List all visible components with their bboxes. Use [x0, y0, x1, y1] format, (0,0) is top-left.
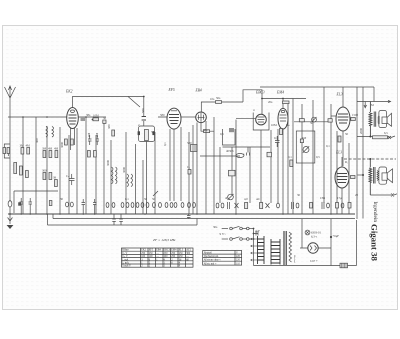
component osc dark — [229, 128, 234, 132]
svg-text:M: M — [371, 103, 374, 107]
svg-text:38a: 38a — [86, 113, 91, 117]
trimmer on link — [312, 117, 317, 122]
capacitor C oval mid — [236, 154, 244, 158]
tube EL3 lower — [335, 167, 349, 188]
capacitor C grid — [69, 174, 75, 185]
tube EF5 — [167, 108, 181, 129]
value labels scatter — [20, 96, 389, 263]
svg-text:Wechselstrom: Wechselstrom — [204, 255, 219, 258]
wire EF5 to EB4 y117 — [181, 116, 196, 118]
contact oval row left a — [66, 202, 69, 207]
transformer secondary winding — [289, 232, 292, 262]
svg-text:Allstrom ohne ≈: Allstrom ohne ≈ — [204, 259, 222, 262]
mid verticals group — [104, 117, 214, 214]
right-mid verticals group — [220, 87, 349, 248]
svg-text:50a: 50a — [216, 96, 221, 100]
svg-text:EM4: EM4 — [276, 91, 284, 95]
contact oval row left b — [70, 202, 73, 207]
svg-text:30: 30 — [297, 193, 301, 197]
tube EK2 — [67, 108, 79, 129]
capacitor C8 block — [229, 170, 236, 176]
left verticals group — [23, 117, 96, 214]
capacitor RC right blob — [152, 131, 154, 135]
svg-text:50: 50 — [310, 121, 314, 125]
resistor R left col b — [20, 166, 23, 175]
resistor R11 — [112, 130, 115, 136]
wire EB4 top — [201, 90, 262, 114]
wire main grid line y117 — [8, 116, 67, 118]
svg-text:EL3: EL3 — [335, 151, 342, 155]
resistor below EB4 — [204, 130, 210, 133]
coil L3 IF — [112, 167, 114, 184]
resistor R15 EM4 — [280, 129, 283, 135]
transformer T2 core — [374, 167, 375, 184]
wire speaker1 bottom — [357, 136, 391, 139]
resistor R8 lower b — [49, 173, 52, 180]
resistor pair mid b — [94, 151, 97, 158]
switch S1 row2 — [222, 237, 254, 241]
capacitor C51 pair between buses — [187, 214, 191, 219]
svg-text:50: 50 — [152, 197, 156, 201]
capacitor series marks top — [142, 117, 146, 121]
text labels layer — [20, 88, 389, 268]
resistor RC center — [144, 130, 148, 141]
wire EB4 bottom lead — [201, 123, 214, 132]
contact row mid ovals — [106, 203, 195, 208]
resistor R6 trio c — [55, 151, 58, 158]
output transformer T1 winding — [369, 102, 372, 137]
resistor at link end — [328, 119, 332, 122]
wire left tie y191 — [14, 191, 58, 213]
wire bus2 y218.5 — [53, 218, 355, 220]
loudspeaker LS1 cone rect — [382, 117, 387, 124]
resistor R13 — [300, 139, 303, 143]
terminal X right lower — [391, 194, 397, 197]
node speaker junction — [369, 136, 371, 138]
svg-text:380: 380 — [107, 124, 111, 129]
svg-text:50: 50 — [151, 130, 155, 134]
tube EM4 — [278, 108, 288, 129]
resistor 20a on link — [299, 119, 304, 122]
component EK2 row b — [93, 118, 99, 121]
pilot lamp — [305, 230, 310, 235]
wire right verticals — [357, 87, 363, 219]
svg-text:b 67 +: b 67 + — [310, 259, 318, 263]
box around EBC3 — [253, 113, 269, 131]
node antenna terminal — [8, 201, 12, 207]
wire top bus y87 — [260, 86, 374, 88]
wire far-left ties — [4, 144, 10, 158]
svg-text:40306: 40306 — [226, 149, 234, 153]
resistor R2 left pair a — [21, 148, 24, 155]
svg-text:4μF: 4μF — [255, 229, 260, 233]
svg-text:EF5: EF5 — [168, 88, 175, 92]
svg-text:Allstr. mit ≈: Allstr. mit ≈ — [204, 262, 217, 265]
trimmer C arrow mid — [228, 194, 234, 200]
resistor R9 lower c — [55, 180, 58, 187]
capacitor C50 pair between buses — [112, 214, 123, 225]
svg-text:40: 40 — [225, 196, 229, 200]
svg-text:+6μF: +6μF — [333, 234, 340, 238]
resistor R3 left pair b — [27, 148, 30, 155]
svg-text:AC: AC — [256, 197, 260, 201]
svg-text:30a: 30a — [213, 225, 218, 229]
wire ground bus y214 — [8, 213, 355, 215]
node stub junction — [362, 174, 364, 176]
contact row right components — [216, 202, 351, 209]
wire EK2 top cap — [73, 97, 144, 127]
tube EBC3 — [256, 114, 267, 125]
input rect far left b — [7, 148, 10, 154]
coil L2 — [52, 127, 54, 138]
node B+ junction — [330, 236, 332, 238]
svg-text:9 V~: 9 V~ — [220, 232, 227, 236]
capacitor C11 mid — [188, 170, 191, 175]
trimmer in box — [303, 146, 309, 153]
switch S1 row1 — [222, 226, 254, 230]
power box bottom — [254, 220, 357, 266]
tube EL3 upper — [336, 107, 350, 131]
loudspeaker LS2 voice coil — [377, 171, 379, 181]
wire antenna down-lead — [9, 108, 11, 202]
input rect far left a — [3, 148, 6, 154]
resistor R left col c — [26, 171, 29, 178]
capacitor C7 — [82, 199, 86, 214]
wire bus returns — [48, 214, 198, 225]
svg-text:580: 580 — [160, 113, 165, 117]
svg-text:17μ: 17μ — [337, 196, 342, 200]
wire bus3 y225 — [48, 224, 198, 226]
resistor R14 — [290, 160, 293, 167]
resistor R left col a — [14, 163, 17, 174]
wire EK2 right row y117 — [79, 116, 168, 118]
table V2 (mains data) — [203, 251, 242, 266]
resistor R17 below EL3 — [338, 136, 341, 142]
wire osc bottom — [223, 146, 271, 148]
resistor above EM4 — [283, 101, 290, 104]
svg-text:2000: 2000 — [359, 128, 363, 135]
transformer T1 core — [374, 112, 376, 127]
resistor R4 trio a — [43, 151, 46, 158]
svg-text:10a: 10a — [210, 97, 215, 101]
resistor R18 — [351, 176, 356, 179]
capacitor RC left blob — [138, 131, 140, 135]
svg-text:20a: 20a — [268, 100, 273, 104]
svg-text:EL3: EL3 — [336, 93, 343, 97]
svg-text:10M: 10M — [271, 123, 277, 127]
resistor pair EK2 bottom b — [71, 139, 74, 145]
node bus dots — [9, 213, 332, 215]
coil L6 IF — [131, 174, 133, 187]
svg-text:50: 50 — [103, 116, 107, 120]
table V2 text — [204, 252, 241, 266]
capacitor C6 on bus — [29, 198, 33, 214]
component EK2 row c — [103, 120, 106, 123]
svg-text:38: 38 — [53, 176, 57, 180]
wire anode line y101.5 — [357, 87, 391, 103]
resistor R16 EL3 — [351, 118, 356, 121]
svg-text:20: 20 — [355, 193, 359, 197]
resistor 25 on 147 line — [267, 152, 272, 157]
loudspeaker LS1 voice coil — [378, 116, 380, 124]
output transformer T2 winding — [369, 159, 372, 195]
node y117 dots — [22, 116, 87, 118]
svg-text:50: 50 — [144, 197, 148, 201]
svg-text:4M: 4M — [26, 144, 31, 148]
svg-text:30: 30 — [60, 197, 64, 201]
svg-text:3000: 3000 — [122, 167, 126, 174]
wire EL3 top drop — [342, 87, 344, 107]
svg-text:Gigant 38: Gigant 38 — [370, 224, 380, 262]
chassis dashed line — [344, 158, 396, 160]
resistor pair mid a — [88, 151, 91, 158]
loudspeaker LS1 frame — [379, 111, 387, 128]
svg-text:580: 580 — [141, 108, 145, 113]
capacitor C10 pair — [96, 135, 100, 145]
svg-text:Irgendein: Irgendein — [372, 202, 378, 223]
trimmer arrow top right — [364, 102, 367, 108]
svg-text:2M: 2M — [95, 133, 99, 138]
loudspeaker LS2 horn — [387, 169, 392, 183]
capacitor C9 pair — [88, 135, 92, 145]
transformer primary ladder2 — [271, 239, 280, 265]
svg-text:500: 500 — [187, 141, 192, 145]
resistor R5 trio b — [49, 151, 52, 158]
svg-text:4M: 4M — [87, 133, 91, 138]
transformer primary ladder1 — [251, 236, 265, 264]
loudspeaker LS2 frame — [379, 167, 387, 184]
svg-text:4M: 4M — [54, 147, 59, 151]
wire terminal to bus — [9, 207, 11, 214]
svg-text:1500: 1500 — [352, 113, 359, 117]
wire osc mid — [200, 155, 240, 157]
wire EK2 leads — [71, 128, 75, 150]
box oscillator section — [223, 129, 236, 145]
svg-text:EK2: EK2 — [65, 90, 73, 94]
capacitor C power input — [254, 232, 259, 236]
svg-text:10M: 10M — [93, 114, 99, 118]
svg-text:EBC3: EBC3 — [255, 91, 265, 95]
capacitor dark blob left — [18, 202, 21, 205]
component pair on 147 line — [247, 147, 250, 156]
svg-text:C84: C84 — [320, 196, 326, 200]
capacitor C8 — [93, 199, 97, 214]
node switch junction dots — [92, 96, 284, 240]
RC block loop — [139, 126, 155, 142]
svg-text:R₂: R₂ — [345, 160, 348, 164]
capacitor C5 on bus — [20, 198, 24, 214]
svg-text:3M: 3M — [42, 147, 47, 151]
resistor R10 small — [49, 201, 52, 206]
svg-text:EB4: EB4 — [195, 89, 202, 93]
rectifier tube AZ1 — [308, 243, 318, 253]
wire rectifier links — [300, 247, 331, 249]
resistor pair EK2 bottom a — [65, 139, 68, 145]
loudspeaker LS2 cone rect — [382, 173, 387, 180]
svg-text:S mA/V: S mA/V — [122, 265, 131, 268]
loudspeaker LS1 horn — [387, 113, 392, 126]
transformer core — [284, 231, 286, 265]
coil L4 IF — [116, 167, 118, 184]
ground triangle — [7, 225, 14, 229]
svg-text:3M: 3M — [20, 144, 25, 148]
antenna A1 — [5, 86, 16, 108]
svg-text:1M: 1M — [302, 136, 307, 140]
svg-text:300: 300 — [35, 138, 39, 143]
trimmer arrow C14 — [153, 191, 158, 196]
capacitor C12 — [275, 136, 280, 147]
svg-text:3000: 3000 — [106, 160, 110, 167]
resistor R12 mid — [191, 145, 198, 152]
wire EM4 top network — [262, 99, 306, 109]
resistor R7 lower a — [43, 173, 46, 180]
svg-text:4M: 4M — [48, 147, 53, 151]
svg-text:50a: 50a — [203, 128, 208, 132]
terminal X right — [388, 136, 395, 139]
wire y121.8 link — [294, 121, 329, 123]
filter block EK2 row — [81, 117, 86, 121]
resistor on EB4 top wire — [216, 101, 222, 104]
coil L5 IF — [127, 174, 129, 187]
table V1 text — [122, 249, 191, 268]
wire diagonal to EF5 — [128, 97, 140, 108]
wire speaker2 bottom — [370, 194, 391, 196]
resistor WW — [340, 263, 348, 268]
resistor R long right — [373, 136, 388, 139]
wire EBC3 left — [236, 118, 256, 120]
wire B+ vertical — [330, 219, 332, 266]
svg-text:300: 300 — [42, 169, 47, 173]
wire EL3 lower top lead — [341, 157, 343, 167]
coil L1 — [46, 127, 48, 138]
node dashed junction — [369, 158, 371, 160]
svg-text:3000: 3000 — [60, 142, 64, 149]
wire EL3 left stub — [331, 115, 336, 117]
svg-text:50: 50 — [345, 132, 349, 136]
ground GND1 — [8, 214, 13, 224]
svg-text:C₀: C₀ — [187, 165, 190, 169]
table V1 (tube data) — [122, 248, 194, 267]
box AM unit — [296, 131, 315, 163]
svg-text:Wechsel: Wechsel — [293, 255, 296, 263]
tube EB4 — [196, 112, 207, 123]
wire power left vertical — [253, 229, 255, 266]
wire stub left — [358, 174, 364, 176]
